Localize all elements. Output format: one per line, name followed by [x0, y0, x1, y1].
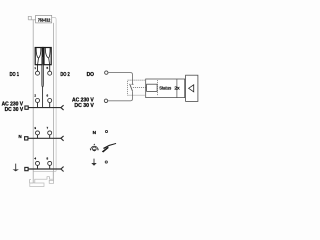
module top-right corner hook — [52, 17, 56, 171]
svg-text:N: N — [19, 134, 22, 139]
stub terminal 3 to N bus — [37, 135, 39, 138]
svg-text:2x: 2x — [174, 85, 180, 90]
module inner right line — [52, 23, 54, 181]
PE bus right chevron — [61, 167, 64, 172]
field terminal lower — [104, 99, 107, 102]
relay contact box K2 — [44, 48, 51, 65]
ground arrow left — [15, 164, 17, 170]
svg-text:DC 30 V: DC 30 V — [5, 107, 24, 113]
label box 753-512 — [36, 15, 52, 23]
PE bus left jumper contact — [25, 167, 28, 170]
terminal 2 — [36, 99, 40, 103]
L bus right chevron — [61, 105, 64, 110]
field contact blade — [130, 84, 133, 91]
terminal 6 — [48, 99, 52, 103]
wire common stem to L bus — [42, 87, 44, 108]
wire field upper — [108, 73, 132, 85]
relay coil box — [147, 84, 158, 91]
svg-text:DO 1: DO 1 — [10, 72, 19, 78]
legend terminal dot ground — [105, 161, 107, 163]
legend operating tool icon — [102, 147, 109, 153]
terminal 5 — [48, 71, 52, 75]
svg-text:753-512: 753-512 — [38, 17, 51, 22]
DIN-rail foot right clip — [49, 180, 53, 183]
relay contact box K1 — [35, 48, 42, 65]
wire K2 common down — [42, 57, 45, 87]
wire K2 output to terminal 5 — [49, 65, 51, 72]
L power bus line — [28, 107, 61, 109]
terminal 1 — [36, 71, 40, 75]
fixed contact tick — [132, 83, 134, 85]
bus interface box — [186, 75, 198, 101]
N bus left jumper contact — [25, 137, 28, 140]
svg-text:DO 2: DO 2 — [60, 72, 69, 78]
terminal 7 — [48, 131, 52, 135]
wire field lower — [108, 91, 133, 101]
stub terminal 7 to N bus — [49, 135, 51, 138]
PE bus line — [28, 168, 61, 170]
mechanical link dashed — [133, 87, 147, 89]
dark bar between relay boxes — [42, 47, 44, 57]
stub terminal 6 to L bus — [49, 103, 51, 108]
relay boundary dashed box — [128, 80, 158, 95]
wire K1 output to terminal 1 — [37, 65, 39, 72]
clamp funnel symbol channel 2 — [45, 48, 50, 65]
legend adjust symbol — [91, 146, 98, 151]
stub terminal 8 to PE bus — [49, 166, 51, 170]
module outline left edge — [32, 20, 34, 183]
terminal 4 — [36, 161, 40, 165]
svg-text:N: N — [93, 130, 97, 136]
L bus left jumper contact — [25, 106, 28, 109]
module top latch tab — [28, 16, 31, 19]
stub terminal 4 to PE bus — [37, 166, 39, 170]
electronics divider line — [176, 79, 178, 98]
terminal 3 — [36, 131, 40, 135]
wire K1 common down — [41, 57, 44, 87]
electronics box — [146, 79, 185, 98]
svg-text:Status: Status — [159, 85, 172, 90]
bus interface triangle — [189, 85, 194, 92]
module top edge — [28, 19, 35, 21]
DIN-rail foot left hook — [30, 179, 34, 183]
DIN-rail foot upper profile — [35, 171, 53, 183]
field terminal upper — [105, 71, 108, 74]
module bottom edge — [33, 170, 56, 172]
DIN-rail foot lower tray — [30, 183, 44, 187]
terminal 8 — [48, 161, 52, 165]
legend terminal dot N — [105, 130, 107, 132]
legend ground arrow — [93, 159, 95, 163]
N bus line — [28, 137, 61, 139]
dashed box right edge over coil — [157, 80, 159, 95]
stub terminal 2 to L bus — [37, 103, 39, 108]
svg-text:DC 30 V: DC 30 V — [74, 103, 94, 109]
clamp funnel symbol channel 1 — [36, 48, 41, 65]
svg-text:DO: DO — [87, 72, 94, 78]
N bus right chevron — [61, 136, 64, 141]
